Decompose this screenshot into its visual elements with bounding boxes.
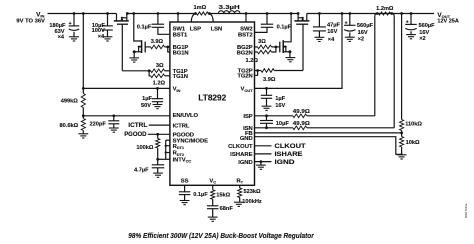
resistor R1 3.9ohm BG1 gate	[147, 39, 170, 52]
wire SW1 node down to M2 drain	[132, 12, 141, 41]
svg-text:PGOOD: PGOOD	[124, 131, 147, 138]
capacitor C2 10uF 100V x4 ceramic input	[92, 12, 113, 41]
wire GND pin to divider bottom	[255, 137, 402, 155]
svg-text:4.7µF: 4.7µF	[134, 168, 149, 174]
svg-text:523kΩ: 523kΩ	[244, 189, 262, 195]
svg-text:499kΩ: 499kΩ	[61, 99, 79, 105]
svg-text:220pF: 220pF	[89, 122, 106, 128]
svg-text:47µF: 47µF	[327, 22, 341, 28]
svg-text:16V: 16V	[327, 29, 337, 35]
resistor R2 3ohm TG1P gate	[122, 63, 170, 72]
svg-text:LT8292: LT8292	[198, 93, 226, 103]
svg-text:×2: ×2	[419, 36, 425, 42]
wire LSP kelvin arc	[191, 14, 195, 23]
svg-text:LSP: LSP	[190, 27, 201, 33]
wire SW1 node rail	[127, 13, 195, 15]
capacitor C3 0.1uF BST1 bootstrap	[137, 12, 170, 34]
svg-text:100kΩ: 100kΩ	[136, 145, 154, 151]
svg-text:0.1µF: 0.1µF	[277, 24, 292, 30]
resistor R3 1.2ohm TG1N gate	[149, 71, 170, 87]
svg-text:BST2: BST2	[238, 33, 253, 39]
svg-text:3.9Ω: 3.9Ω	[263, 77, 276, 83]
pin labels bottom row	[181, 178, 244, 184]
svg-text:EN/UVLO: EN/UVLO	[173, 113, 199, 119]
svg-text:3Ω: 3Ω	[156, 63, 164, 69]
svg-text:VIN: VIN	[173, 87, 181, 93]
capacitor C4 0.1uF BST2 bootstrap	[255, 12, 292, 32]
wire INTVCC pin wire	[156, 158, 170, 161]
svg-text:+: +	[406, 20, 409, 26]
svg-text:IGND: IGND	[238, 160, 252, 166]
svg-text:560µF: 560µF	[419, 23, 436, 29]
svg-text:LSN: LSN	[211, 27, 222, 33]
svg-text:1.2mΩ: 1.2mΩ	[376, 6, 394, 12]
svg-text:BST1: BST1	[173, 32, 188, 38]
svg-text:+: +	[345, 21, 348, 27]
resistor R6 1.2ohm BG2N gate	[246, 47, 276, 64]
svg-text:VOUT: VOUT	[241, 87, 254, 93]
svg-text:×2: ×2	[358, 36, 364, 42]
wire VOUT pin riser from output rail	[255, 12, 344, 88]
svg-text:×4: ×4	[328, 37, 335, 43]
svg-text:+: +	[69, 21, 72, 27]
resistor R7 3.9ohm TG2 gate	[255, 69, 304, 84]
svg-text:8292 TA01a: 8292 TA01a	[464, 203, 468, 218]
node VIN input terminal label	[16, 11, 45, 24]
capacitor C14 68nF VC compensation	[207, 206, 233, 222]
transistor M4 boost top NMOS switch	[294, 12, 309, 70]
svg-text:SS: SS	[181, 178, 189, 184]
resistor R10 100k PGOOD pull-up	[136, 134, 159, 159]
node ICTRL external net label	[128, 122, 170, 129]
svg-text:TG1N: TG1N	[173, 74, 188, 80]
svg-text:0.1µF: 0.1µF	[137, 25, 152, 31]
wire LSN kelvin arc	[209, 14, 213, 23]
resistor R16 15k VC compensation	[211, 185, 231, 206]
svg-text:3.9Ω: 3.9Ω	[151, 39, 164, 45]
capacitor C5 1uF 50V VIN bypass	[141, 87, 163, 109]
svg-text:1µF: 1µF	[275, 96, 285, 102]
resistor R8 499k EN/UVLO top divider	[61, 94, 86, 119]
svg-text:CLKOUT: CLKOUT	[275, 143, 306, 150]
svg-text:ISHARE: ISHARE	[275, 151, 303, 158]
svg-text:0.1µF: 0.1µF	[193, 192, 208, 198]
capacitor C10 47uF 16V x4 ceramic output	[313, 12, 341, 43]
wire VIN sense riser and VIN pin wire	[82, 12, 170, 93]
svg-text:×4: ×4	[98, 34, 105, 40]
svg-text:100kHz: 100kHz	[242, 199, 262, 205]
svg-text:15kΩ: 15kΩ	[216, 193, 230, 199]
wire SW2 pin stub	[245, 12, 248, 22]
resistor R14 110k FB top	[400, 120, 423, 137]
svg-text:10kΩ: 10kΩ	[406, 140, 420, 146]
svg-text:3.3µH: 3.3µH	[219, 5, 240, 11]
resistor R4 1mohm current sense LSP-LSN	[194, 5, 211, 15]
svg-text:68nF: 68nF	[220, 206, 234, 212]
svg-text:1µF: 1µF	[142, 96, 152, 102]
svg-text:BG2N: BG2N	[237, 50, 253, 56]
svg-text:50V: 50V	[141, 103, 151, 109]
svg-text:CLKOUT: CLKOUT	[228, 144, 253, 150]
inductor L1 3.3uH	[218, 5, 240, 13]
wire SW1 pin stub	[177, 12, 180, 22]
wire SW2 node rail from inductor to M4	[209, 13, 298, 15]
pin labels left column	[173, 27, 222, 164]
wire SW2 node down to M3 drain	[284, 12, 293, 42]
node PGOOD external net label	[124, 131, 170, 138]
transistor M1 buck top NMOS switch	[114, 12, 129, 71]
svg-text:×4: ×4	[58, 34, 65, 40]
svg-text:16V: 16V	[275, 103, 285, 109]
wire SYNC/MODE RDT1 RDT2 tie to INTVCC	[165, 140, 170, 159]
svg-text:1mΩ: 1mΩ	[194, 5, 207, 11]
svg-text:1.2Ω: 1.2Ω	[246, 58, 259, 64]
wire FB divider riser	[400, 12, 403, 119]
svg-text:9V TO 36V: 9V TO 36V	[16, 19, 45, 25]
svg-text:49.9Ω: 49.9Ω	[293, 109, 311, 115]
svg-text:ISHARE: ISHARE	[230, 152, 252, 158]
svg-text:80.6kΩ: 80.6kΩ	[60, 123, 79, 129]
resistor R15 10k FB bottom	[397, 137, 420, 160]
svg-text:GND: GND	[240, 136, 253, 142]
node CLKOUT net label	[255, 143, 306, 150]
svg-text:110kΩ: 110kΩ	[405, 122, 422, 128]
pin labels right column	[228, 27, 253, 166]
op-amp U1 LT8292 regulator IC body	[170, 22, 255, 185]
node IGND net label and ground	[255, 159, 296, 170]
capacitor C6 220pF EN/UVLO filter	[89, 114, 119, 132]
transistor M2 buck bottom NMOS (BG1)	[129, 40, 146, 62]
capacitor C13 0.1uF soft-start	[179, 185, 208, 204]
wire VIN rail to M1 drain	[48, 13, 117, 15]
capacitor C9 10uF ISP-ISN filter	[260, 116, 289, 129]
resistor R12 49.9ohm ISN filter	[293, 14, 394, 130]
svg-text:ICTRL: ICTRL	[173, 123, 190, 129]
svg-text:12V 25A: 12V 25A	[437, 19, 458, 25]
capacitor C7 4.7uF INTVCC	[134, 159, 164, 177]
svg-text:SYNC/MODE: SYNC/MODE	[173, 138, 209, 144]
capacitor C8 1uF 16V VOUT pin bypass	[261, 87, 286, 110]
resistor R11 49.9ohm ISP filter	[293, 14, 377, 118]
svg-text:10µF: 10µF	[276, 121, 290, 127]
svg-text:TG2N: TG2N	[237, 73, 252, 79]
node ISHARE net label	[255, 151, 303, 158]
svg-text:ICTRL: ICTRL	[128, 122, 147, 129]
wire ISN pin wire and riser	[255, 127, 293, 129]
wire VOUT rail from M4 to output	[307, 13, 434, 15]
resistor R17 523k RT 100kHz	[234, 185, 262, 206]
svg-text:IGND: IGND	[275, 159, 296, 166]
svg-text:RDT2: RDT2	[173, 151, 185, 157]
node VOUT output terminal label	[437, 12, 458, 25]
wire EN/UVLO pin wire	[83, 115, 170, 117]
svg-text:98% Efficient 300W (12V 25A) B: 98% Efficient 300W (12V 25A) Buck-Boost …	[128, 231, 314, 240]
svg-text:16V: 16V	[419, 30, 429, 36]
svg-text:49.9Ω: 49.9Ω	[293, 121, 311, 127]
wire ISP pin wire and riser to output sense	[255, 114, 293, 117]
svg-text:RT: RT	[236, 178, 243, 184]
svg-text:3Ω: 3Ω	[258, 39, 266, 45]
transistor M3 boost bottom NMOS (BG2)	[278, 40, 295, 62]
svg-text:16V: 16V	[358, 30, 368, 36]
wire FB pin to divider	[255, 132, 402, 134]
svg-text:INTVCC: INTVCC	[173, 158, 192, 164]
svg-text:BG1N: BG1N	[173, 50, 189, 56]
svg-text:VC: VC	[209, 178, 216, 184]
resistor R9 80.6k EN/UVLO bottom divider	[60, 119, 89, 139]
capacitor C11 560uF 16V x2 electrolytic	[344, 12, 374, 42]
capacitor C12 560uF 16V x2 electrolytic output	[405, 12, 435, 42]
svg-text:RDT1: RDT1	[173, 144, 185, 150]
resistor R5 3ohm BG2P gate	[255, 39, 279, 49]
svg-text:560µF: 560µF	[357, 23, 374, 29]
capacitor C1 180uF 63V x4 electrolytic input	[49, 12, 79, 41]
resistor R13 1.2mohm output current sense	[376, 6, 394, 15]
svg-text:1.2Ω: 1.2Ω	[153, 81, 166, 87]
svg-text:ISP: ISP	[243, 114, 252, 120]
